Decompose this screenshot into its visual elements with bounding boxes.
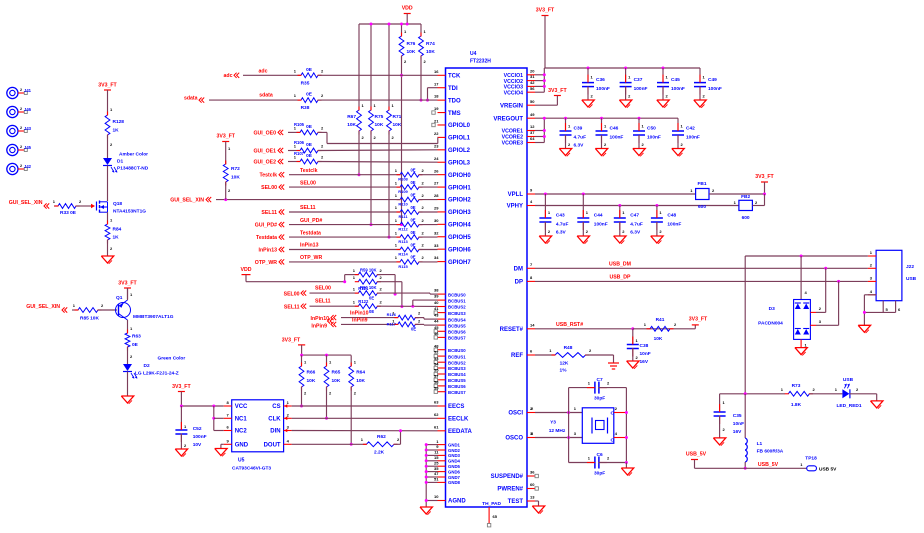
svg-text:27: 27: [434, 181, 439, 186]
svg-text:GPIOH3: GPIOH3: [448, 210, 471, 216]
svg-text:1: 1: [374, 103, 377, 108]
svg-text:BCBUS1: BCBUS1: [448, 298, 466, 303]
svg-text:4.7uF: 4.7uF: [556, 222, 569, 228]
svg-text:22: 22: [434, 131, 439, 136]
svg-text:USB: USB: [906, 276, 917, 282]
svg-text:2: 2: [321, 125, 324, 130]
svg-text:2: 2: [20, 88, 22, 92]
svg-text:USB_RST#: USB_RST#: [556, 322, 583, 328]
svg-text:600: 600: [742, 215, 750, 221]
svg-text:R121: R121: [358, 286, 369, 291]
svg-text:65: 65: [493, 514, 498, 519]
svg-text:1: 1: [361, 437, 364, 442]
svg-text:0E: 0E: [410, 217, 415, 222]
svg-text:58: 58: [434, 380, 439, 385]
svg-text:TH_PAD: TH_PAD: [482, 501, 501, 507]
svg-text:0E: 0E: [411, 326, 416, 331]
svg-text:33: 33: [434, 243, 439, 248]
svg-text:1: 1: [392, 103, 395, 108]
svg-text:2: 2: [418, 311, 421, 316]
svg-text:R122: R122: [358, 299, 369, 304]
svg-text:R62: R62: [377, 434, 386, 440]
svg-text:BCBUS3: BCBUS3: [448, 311, 466, 316]
svg-text:GPIOH5: GPIOH5: [448, 235, 471, 241]
svg-text:1: 1: [362, 103, 365, 108]
svg-text:2: 2: [870, 262, 873, 267]
svg-text:GUI_OE1: GUI_OE1: [254, 149, 277, 155]
svg-text:34: 34: [434, 255, 439, 260]
svg-text:VDD: VDD: [241, 267, 252, 273]
svg-text:2: 2: [20, 107, 22, 111]
svg-text:2: 2: [607, 381, 610, 386]
svg-text:2: 2: [184, 443, 187, 448]
svg-text:1: 1: [588, 381, 591, 386]
svg-text:adc: adc: [224, 73, 233, 79]
svg-text:VDD: VDD: [402, 6, 413, 12]
svg-text:100nF: 100nF: [594, 222, 608, 228]
svg-text:GPIOL3: GPIOL3: [448, 160, 471, 166]
svg-text:600: 600: [698, 204, 706, 210]
svg-text:C45: C45: [671, 77, 680, 83]
svg-text:4.7uF: 4.7uF: [574, 135, 587, 141]
svg-text:DOUT: DOUT: [264, 443, 281, 449]
svg-text:3V3_FT: 3V3_FT: [548, 88, 567, 94]
svg-text:1: 1: [353, 286, 356, 291]
svg-text:100nF: 100nF: [686, 135, 700, 141]
svg-text:100nF: 100nF: [596, 86, 610, 92]
svg-text:PWREN#: PWREN#: [497, 487, 523, 493]
svg-text:100nF: 100nF: [667, 222, 681, 228]
svg-text:0E: 0E: [132, 342, 139, 348]
svg-text:0E: 0E: [410, 230, 415, 235]
svg-text:GPIOH2: GPIOH2: [448, 198, 471, 204]
svg-text:VPLL: VPLL: [508, 192, 524, 198]
svg-text:CS: CS: [272, 404, 280, 410]
svg-text:R66: R66: [307, 370, 316, 376]
svg-text:1: 1: [659, 210, 662, 215]
svg-text:1: 1: [130, 326, 133, 331]
svg-text:FT2232H: FT2232H: [470, 59, 491, 65]
svg-text:1: 1: [304, 360, 307, 365]
svg-text:1: 1: [395, 168, 398, 173]
svg-text:2: 2: [568, 142, 571, 147]
svg-text:10K: 10K: [426, 49, 435, 55]
svg-text:63: 63: [434, 400, 439, 405]
svg-text:GND7: GND7: [448, 475, 461, 480]
svg-text:10K: 10K: [654, 336, 663, 342]
svg-text:1: 1: [130, 292, 133, 297]
svg-text:31: 31: [530, 74, 535, 79]
svg-text:GND: GND: [235, 443, 249, 449]
svg-text:GPIOL2: GPIOL2: [448, 148, 471, 154]
svg-text:C50: C50: [647, 126, 656, 132]
svg-text:BCBUS2: BCBUS2: [448, 305, 466, 310]
svg-text:6: 6: [530, 349, 533, 354]
svg-text:57: 57: [434, 373, 439, 378]
svg-text:J42: J42: [24, 164, 32, 169]
svg-text:1: 1: [110, 218, 113, 223]
svg-text:USB_DM: USB_DM: [609, 261, 631, 267]
svg-text:GPIOL1: GPIOL1: [448, 136, 471, 142]
svg-text:7: 7: [530, 262, 533, 267]
svg-text:VREGIN: VREGIN: [500, 103, 523, 109]
svg-text:D3: D3: [769, 306, 775, 312]
svg-text:10K: 10K: [375, 122, 384, 128]
svg-text:TCK: TCK: [448, 74, 461, 80]
svg-text:PACDN004: PACDN004: [758, 321, 783, 327]
svg-text:USB_5V: USB_5V: [758, 462, 779, 468]
svg-text:2: 2: [380, 275, 383, 280]
svg-text:InPin13: InPin13: [259, 248, 278, 254]
svg-text:10K: 10K: [356, 378, 365, 384]
svg-text:R84: R84: [113, 227, 122, 233]
svg-text:TP18: TP18: [805, 456, 817, 462]
svg-text:J22: J22: [906, 264, 914, 270]
svg-text:1: 1: [395, 230, 398, 235]
svg-text:1: 1: [329, 360, 332, 365]
svg-text:GPIOH1: GPIOH1: [448, 185, 471, 191]
svg-text:R67: R67: [347, 114, 356, 120]
svg-text:3V3_FT: 3V3_FT: [536, 8, 555, 14]
svg-text:J46: J46: [24, 107, 32, 112]
svg-text:1: 1: [628, 75, 631, 80]
svg-text:61: 61: [434, 424, 439, 429]
svg-text:R128: R128: [113, 119, 125, 125]
svg-text:60: 60: [530, 482, 535, 487]
svg-text:10nF: 10nF: [640, 351, 651, 357]
svg-text:2: 2: [110, 246, 113, 251]
svg-text:42: 42: [530, 80, 535, 85]
svg-text:BCBUS5: BCBUS5: [448, 323, 466, 328]
svg-text:1: 1: [228, 146, 231, 151]
svg-text:6.3V: 6.3V: [630, 230, 641, 236]
svg-text:2: 2: [755, 200, 758, 205]
svg-text:3: 3: [574, 431, 577, 436]
svg-text:2: 2: [79, 199, 82, 204]
svg-text:100nF: 100nF: [610, 135, 624, 141]
svg-text:1: 1: [588, 456, 591, 461]
svg-text:BCBUS1: BCBUS1: [448, 354, 466, 359]
svg-text:29: 29: [434, 206, 439, 211]
svg-text:GPIOH6: GPIOH6: [448, 247, 471, 253]
svg-text:4: 4: [530, 199, 533, 204]
svg-text:BCBUS4: BCBUS4: [448, 317, 466, 322]
svg-text:1: 1: [404, 29, 407, 34]
svg-text:Testdata: Testdata: [300, 230, 321, 236]
svg-text:SEL11: SEL11: [284, 305, 300, 311]
svg-text:DP: DP: [515, 280, 523, 286]
svg-text:2: 2: [615, 406, 618, 411]
svg-text:100nF: 100nF: [647, 135, 661, 141]
svg-text:DIN: DIN: [270, 429, 280, 435]
svg-text:2: 2: [589, 348, 592, 353]
svg-text:1%: 1%: [560, 368, 568, 374]
svg-text:R35: R35: [301, 81, 310, 87]
svg-text:C: C: [611, 438, 615, 444]
svg-text:GPIOL0: GPIOL0: [448, 123, 471, 129]
svg-text:2: 2: [321, 155, 324, 160]
svg-text:2: 2: [422, 218, 425, 223]
svg-text:GUI_SEL_XIN: GUI_SEL_XIN: [9, 200, 43, 206]
svg-text:1: 1: [548, 210, 551, 215]
svg-text:Testclk: Testclk: [260, 173, 278, 179]
svg-text:GUI_PD#: GUI_PD#: [300, 218, 322, 224]
svg-text:2: 2: [723, 427, 726, 432]
svg-text:1: 1: [395, 218, 398, 223]
svg-text:2: 2: [422, 193, 425, 198]
svg-text:R41: R41: [656, 317, 665, 323]
svg-text:10K: 10K: [332, 378, 341, 384]
svg-text:1: 1: [591, 75, 594, 80]
svg-text:C46: C46: [610, 126, 619, 132]
svg-text:40: 40: [434, 300, 439, 305]
svg-text:59: 59: [434, 385, 439, 390]
svg-text:0E: 0E: [410, 180, 415, 185]
svg-text:BCBUS0: BCBUS0: [448, 292, 466, 297]
svg-text:2: 2: [813, 387, 816, 392]
svg-text:EECS: EECS: [448, 404, 464, 410]
svg-text:USB_DP: USB_DP: [609, 274, 631, 280]
svg-text:AGND: AGND: [448, 499, 466, 505]
svg-text:R117: R117: [387, 322, 397, 327]
svg-text:BCBUS4: BCBUS4: [448, 372, 466, 377]
svg-text:D2: D2: [144, 363, 150, 369]
svg-text:C6: C6: [597, 452, 603, 458]
svg-text:16V: 16V: [640, 359, 649, 365]
svg-text:2: 2: [636, 355, 639, 360]
svg-text:1K: 1K: [113, 235, 120, 241]
svg-text:3V3_FT: 3V3_FT: [689, 317, 708, 323]
svg-text:3V3_FT: 3V3_FT: [755, 174, 774, 180]
svg-text:4: 4: [287, 439, 290, 444]
svg-text:2: 2: [591, 94, 594, 99]
svg-text:EEDATA: EEDATA: [448, 429, 472, 435]
svg-text:1: 1: [395, 255, 398, 260]
svg-text:USB 5V: USB 5V: [819, 467, 837, 473]
svg-text:2: 2: [422, 205, 425, 210]
svg-text:2: 2: [101, 303, 104, 308]
svg-text:2: 2: [604, 142, 607, 147]
svg-text:1: 1: [184, 424, 187, 429]
svg-text:R116: R116: [387, 312, 397, 317]
svg-text:BCBUS7: BCBUS7: [448, 390, 466, 395]
svg-text:1: 1: [110, 107, 113, 112]
svg-text:3: 3: [819, 319, 822, 324]
svg-text:R73: R73: [792, 383, 801, 389]
svg-text:R112: R112: [398, 227, 408, 232]
svg-text:NTA4153NT1G: NTA4153NT1G: [113, 209, 146, 215]
svg-text:0E: 0E: [306, 142, 313, 148]
svg-text:1: 1: [574, 406, 577, 411]
svg-text:1: 1: [549, 348, 552, 353]
svg-text:30pF: 30pF: [594, 471, 605, 477]
svg-text:3V3_FT: 3V3_FT: [172, 384, 191, 390]
svg-text:0E: 0E: [369, 296, 374, 301]
svg-text:1: 1: [395, 243, 398, 248]
svg-text:Amber Color: Amber Color: [119, 152, 148, 158]
svg-text:2: 2: [622, 229, 625, 234]
svg-text:L1: L1: [757, 441, 763, 447]
svg-text:10K: 10K: [407, 49, 416, 55]
svg-text:13: 13: [530, 495, 535, 500]
svg-text:3: 3: [870, 275, 873, 280]
svg-text:10nF: 10nF: [733, 421, 744, 427]
svg-text:2: 2: [354, 391, 357, 396]
svg-text:100nF: 100nF: [708, 86, 722, 92]
svg-text:GUI_PD#: GUI_PD#: [255, 223, 277, 229]
svg-text:TDI: TDI: [448, 86, 458, 92]
svg-text:R109: R109: [398, 189, 408, 194]
svg-text:1.8K: 1.8K: [791, 402, 802, 408]
svg-text:sdata: sdata: [259, 93, 273, 99]
svg-text:D1: D1: [117, 159, 123, 165]
svg-text:2: 2: [628, 94, 631, 99]
svg-text:USB: USB: [843, 377, 854, 383]
svg-text:10K: 10K: [347, 122, 356, 128]
svg-text:2: 2: [418, 318, 421, 323]
svg-text:8: 8: [226, 400, 229, 405]
svg-text:R48: R48: [564, 345, 573, 351]
svg-text:2: 2: [548, 229, 551, 234]
svg-text:1: 1: [642, 124, 645, 129]
svg-text:R74: R74: [426, 41, 435, 47]
svg-text:1: 1: [424, 29, 427, 34]
svg-text:48: 48: [434, 343, 439, 348]
svg-text:2: 2: [321, 68, 324, 73]
svg-text:1: 1: [835, 387, 838, 392]
svg-text:GPIOH0: GPIOH0: [448, 173, 471, 179]
svg-text:2: 2: [380, 299, 383, 304]
svg-text:1: 1: [353, 275, 356, 280]
svg-text:2: 2: [674, 322, 677, 327]
svg-text:6: 6: [898, 307, 901, 312]
svg-text:2: 2: [712, 188, 715, 193]
svg-text:VPHY: VPHY: [507, 204, 523, 210]
svg-text:100nF: 100nF: [634, 86, 648, 92]
svg-text:CAT93C46VI-GT3: CAT93C46VI-GT3: [232, 466, 271, 472]
svg-text:16V: 16V: [733, 429, 742, 435]
svg-text:6: 6: [226, 425, 229, 430]
svg-text:1: 1: [294, 68, 297, 73]
svg-text:36: 36: [530, 470, 535, 475]
svg-text:5: 5: [886, 307, 889, 312]
svg-text:4: 4: [615, 431, 618, 436]
svg-text:GUI_OE2: GUI_OE2: [254, 160, 277, 166]
svg-text:4.7uF: 4.7uF: [630, 222, 643, 228]
svg-text:InPin10: InPin10: [311, 316, 330, 322]
svg-text:64: 64: [530, 136, 535, 141]
svg-text:2: 2: [329, 391, 332, 396]
svg-text:R33 0E: R33 0E: [60, 210, 77, 216]
svg-text:USB_5V: USB_5V: [686, 452, 707, 458]
svg-text:GND5: GND5: [448, 464, 461, 469]
svg-text:2: 2: [130, 354, 133, 359]
svg-text:62: 62: [434, 412, 439, 417]
svg-text:2: 2: [20, 126, 22, 130]
svg-text:InPin13: InPin13: [300, 243, 319, 249]
svg-text:1: 1: [870, 250, 873, 255]
svg-text:R76: R76: [407, 41, 416, 47]
svg-text:2: 2: [819, 306, 822, 311]
svg-text:FB1: FB1: [697, 181, 706, 187]
svg-text:RESET#: RESET#: [500, 327, 524, 333]
svg-text:GND4: GND4: [448, 459, 461, 464]
svg-text:BCBUS5: BCBUS5: [448, 378, 466, 383]
svg-text:14: 14: [530, 322, 535, 327]
svg-text:VREGOUT: VREGOUT: [493, 116, 523, 122]
svg-text:2: 2: [422, 180, 425, 185]
svg-text:1: 1: [568, 124, 571, 129]
svg-text:1: 1: [294, 93, 297, 98]
svg-text:Testclk: Testclk: [300, 168, 318, 174]
svg-text:GND1: GND1: [448, 442, 461, 447]
svg-text:3V3_FT: 3V3_FT: [282, 338, 301, 344]
svg-text:38: 38: [434, 288, 439, 293]
svg-text:SEL11: SEL11: [315, 299, 331, 305]
svg-text:U4: U4: [470, 51, 477, 57]
svg-text:1: 1: [636, 338, 639, 343]
svg-text:Green Color: Green Color: [158, 356, 186, 362]
svg-text:OTP_WR: OTP_WR: [255, 260, 277, 266]
svg-text:OSCI: OSCI: [508, 411, 523, 417]
svg-text:SEL00: SEL00: [315, 286, 331, 292]
svg-text:GUI_OE0: GUI_OE0: [254, 130, 277, 136]
svg-text:NC1: NC1: [235, 417, 248, 423]
svg-text:6.3V: 6.3V: [556, 230, 567, 236]
svg-text:R63: R63: [132, 334, 141, 340]
svg-text:2: 2: [397, 437, 400, 442]
svg-text:24: 24: [434, 156, 439, 161]
svg-text:3V3_FT: 3V3_FT: [216, 133, 235, 139]
svg-text:R115: R115: [398, 264, 408, 269]
svg-text:R75: R75: [375, 114, 384, 120]
svg-text:TMS: TMS: [448, 111, 461, 117]
svg-text:Q18: Q18: [113, 201, 122, 207]
svg-text:16: 16: [434, 69, 439, 74]
svg-text:R107: R107: [294, 151, 305, 156]
svg-text:10K: 10K: [307, 378, 316, 384]
svg-text:2: 2: [321, 93, 324, 98]
svg-text:R64: R64: [356, 370, 365, 376]
svg-text:1: 1: [53, 199, 56, 204]
svg-text:Testdata: Testdata: [256, 235, 277, 241]
svg-text:R65: R65: [332, 370, 341, 376]
svg-text:C43: C43: [556, 213, 565, 219]
svg-text:1: 1: [353, 268, 356, 273]
svg-text:LED_RED1: LED_RED1: [836, 403, 861, 409]
svg-text:18: 18: [434, 94, 439, 99]
svg-text:C42: C42: [686, 126, 695, 132]
svg-text:3V3_FT: 3V3_FT: [98, 83, 117, 89]
svg-text:2: 2: [422, 243, 425, 248]
svg-text:12K: 12K: [560, 361, 569, 367]
svg-text:10: 10: [434, 494, 439, 499]
svg-text:GND8: GND8: [448, 480, 461, 485]
svg-text:0E: 0E: [410, 242, 415, 247]
svg-text:SUSPEND#: SUSPEND#: [491, 474, 524, 480]
svg-text:2: 2: [321, 144, 324, 149]
svg-text:49: 49: [530, 112, 535, 117]
svg-text:sdata: sdata: [184, 95, 198, 101]
svg-text:VCCIO4: VCCIO4: [504, 90, 523, 96]
svg-text:0E: 0E: [306, 92, 313, 98]
svg-text:1: 1: [436, 439, 439, 444]
svg-text:2: 2: [20, 145, 22, 149]
svg-text:2.2K: 2.2K: [374, 450, 385, 456]
svg-text:C35: C35: [733, 413, 742, 419]
svg-text:BCBUS0: BCBUS0: [448, 348, 466, 353]
svg-text:0E: 0E: [369, 309, 374, 314]
